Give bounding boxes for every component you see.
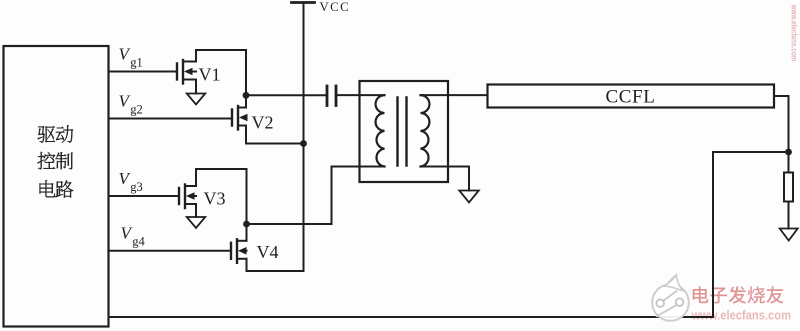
label Vg2 [119, 91, 143, 116]
transistor V2 source stub [238, 125, 246, 127]
svg-text:V4: V4 [257, 242, 279, 262]
wire V3 drain to top [196, 169, 247, 224]
transformer core [396, 98, 398, 166]
svg-text:V2: V2 [252, 113, 274, 133]
wire resistor to ground [788, 202, 790, 229]
transistor V3 drain stub [185, 185, 196, 187]
transistor V2 drain stub [238, 107, 246, 109]
watermark chinese text [693, 286, 785, 305]
transistor V2 gate bar [231, 110, 233, 126]
wire node D to feedback left [713, 151, 789, 153]
wire node A to capacitor [246, 94, 327, 96]
wire node C to primary bottom jog [247, 167, 385, 225]
watermark logo disc [652, 275, 689, 321]
wire bottom return [109, 316, 714, 318]
transistor V1 body arrow [191, 71, 196, 73]
wire Vg2 [109, 118, 233, 120]
transistor V4 channel bar [236, 239, 238, 262]
svg-text:V1: V1 [199, 65, 221, 85]
wire Vg4 [109, 250, 232, 252]
wire secondary bottom to ground [421, 167, 470, 191]
wire VCC vertical [303, 3, 305, 272]
lamp CCFL body [488, 85, 775, 108]
VCC rail symbol [292, 1, 315, 4]
node D junction [785, 149, 792, 156]
wire V2 drain to node A [245, 95, 247, 107]
wire V4 drain to node C [246, 224, 248, 241]
wire V3 source down [195, 204, 197, 217]
transistor V1 channel bar [182, 60, 184, 84]
capacitor C1 plate right [335, 86, 338, 106]
svg-text:g3: g3 [130, 180, 143, 194]
node C junction [243, 221, 250, 228]
transistor V1 drain stub [183, 61, 196, 63]
ground at secondary [459, 191, 479, 203]
transformer T1 box [360, 81, 449, 182]
wire Vg3 [109, 195, 180, 197]
svg-text:g4: g4 [132, 235, 145, 249]
node B junction [300, 140, 307, 147]
svg-text:g1: g1 [130, 55, 143, 69]
transistor V1 source stub [183, 79, 196, 81]
transformer secondary winding [421, 95, 430, 166]
transformer primary winding [376, 95, 385, 166]
wire CCFL right down to node D [774, 96, 789, 152]
wire V2 source to node B [246, 126, 304, 144]
box text 驱动控制电路 [38, 125, 74, 197]
svg-text:CCFL: CCFL [606, 87, 656, 108]
wire V1 drain to top [196, 50, 246, 95]
ground under V3 [187, 217, 206, 228]
svg-text:g2: g2 [130, 102, 143, 116]
svg-text:www.elecfans.com: www.elecfans.com [790, 4, 800, 62]
ground under V1 [187, 94, 206, 105]
transistor V2 body arrow [245, 117, 247, 119]
wire V4 source to VCC line [247, 259, 304, 271]
transistor V4 drain stub [237, 240, 247, 242]
transistor V3 body arrow [193, 195, 196, 197]
driver control box [4, 46, 109, 327]
wire V1 source down [195, 80, 197, 94]
svg-text:www.elecfans.com: www.elecfans.com [691, 308, 791, 323]
transistor V3 source stub [185, 203, 196, 205]
resistor R1 [784, 173, 793, 202]
label Vg3 [119, 169, 143, 194]
node A junction [243, 92, 250, 99]
transistor V3 channel bar [184, 185, 186, 209]
transistor V4 source stub [237, 258, 247, 260]
transistor V4 gate bar [230, 243, 232, 259]
capacitor C1 plate left [326, 86, 329, 106]
wire feedback vertical [712, 152, 714, 317]
ground at resistor [780, 229, 798, 241]
wire node D to resistor [788, 152, 790, 173]
wire Vg1 [109, 71, 178, 73]
svg-text:VCC: VCC [320, 0, 351, 14]
svg-text:V3: V3 [204, 189, 226, 209]
transistor V4 body arrow [245, 250, 247, 252]
wire secondary top to CCFL [421, 94, 488, 96]
transistor V3 gate bar [178, 188, 180, 204]
wire capacitor to primary top [336, 94, 385, 96]
transistor V2 channel bar [237, 106, 239, 130]
label Vg4 [121, 224, 146, 249]
label Vg1 [119, 44, 143, 69]
transistor V1 gate bar [176, 64, 178, 80]
